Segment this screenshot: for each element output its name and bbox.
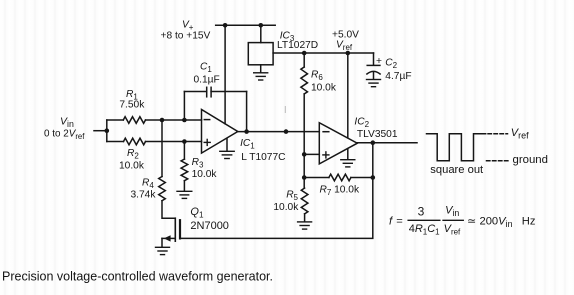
transistor Q1 gate bar [174, 218, 176, 241]
svg-text:Hz: Hz [522, 215, 536, 227]
wire IC1 supply drop [224, 25, 226, 124]
wire Vin vertical split [106, 120, 108, 142]
svg-text:Q1: Q1 [190, 206, 204, 220]
wire Vin input stub [94, 130, 107, 132]
svg-text:Precision voltage-controlled w: Precision voltage-controlled waveform ge… [2, 270, 273, 284]
svg-text:ground: ground [513, 154, 548, 166]
wire IC2 supply drop from Vref [347, 53, 349, 138]
wire R6 top lead [303, 53, 305, 67]
resistor R3 [181, 159, 188, 181]
svg-text:L T1077C: L T1077C [241, 152, 285, 163]
wire R6 bottom to plus node crossing IC1 output [303, 94, 305, 178]
svg-text:3.74k: 3.74k [131, 190, 157, 201]
dashed level line ground [487, 160, 510, 162]
wire R5 bottom lead [304, 214, 306, 222]
svg-text:C2: C2 [385, 58, 397, 71]
wire V+ rail [216, 24, 276, 26]
node IC2 plus input [302, 152, 307, 157]
svg-text:IC2: IC2 [354, 117, 369, 130]
wire Q1 drain rail [180, 143, 373, 239]
wire R2 to non-inverting input [146, 141, 202, 143]
node R6 top [302, 51, 307, 56]
wire R3 top lead [183, 142, 185, 160]
wire C1 feedback right riser [246, 92, 248, 132]
wire IC3 ground stub [260, 65, 262, 73]
svg-text:10.0k: 10.0k [273, 202, 299, 213]
node V+ to IC3 [259, 23, 264, 28]
wire faint artifact above node F [284, 107, 286, 113]
svg-text:Vref: Vref [444, 223, 461, 237]
svg-text:10.0k: 10.0k [192, 169, 218, 180]
ground R5 [298, 222, 312, 229]
capacitor C2 wire from Vref [373, 53, 375, 65]
svg-text:C1: C1 [200, 62, 212, 75]
svg-text:+: + [376, 56, 382, 67]
label IC2 minus input [323, 131, 329, 133]
wire IC1 ground stub [226, 139, 228, 151]
node D non-inverting junction [182, 139, 187, 144]
svg-text:4.7µF: 4.7µF [385, 71, 411, 82]
node C top-branch junction to C1 [182, 118, 187, 123]
ground C2 [367, 80, 381, 87]
svg-text:f=: f= [389, 215, 403, 227]
label IC2 plus input [323, 152, 329, 158]
wire IC1 output [238, 131, 319, 133]
comparator U2 IC2 triangle [319, 123, 357, 164]
label IC1 minus input [204, 119, 209, 121]
svg-text:R7 10.0k: R7 10.0k [320, 185, 360, 198]
node Vin junction [105, 128, 110, 133]
wire IC2 output [357, 142, 417, 144]
node B top-branch junction to R4 [160, 118, 165, 123]
svg-text:IC1: IC1 [240, 138, 255, 151]
svg-text:R2: R2 [127, 148, 139, 161]
resistor R2 [124, 138, 146, 145]
square wave output symbol [427, 134, 486, 161]
label IC1 plus input [204, 139, 210, 145]
ground IC1 [220, 151, 234, 158]
svg-text:4R1C1: 4R1C1 [409, 223, 440, 237]
wire R4 top lead from node B [161, 120, 163, 177]
transistor Q1 source wire with body arrow [162, 237, 175, 239]
wire bottom branch to R2 [107, 141, 124, 143]
wire C1 feedback top left [184, 91, 206, 93]
node F output wire junction [284, 129, 289, 134]
ground IC2 [341, 160, 355, 167]
node E C1 feedback tap [244, 129, 249, 134]
svg-text:R5: R5 [286, 190, 298, 203]
op-amp U1 IC1 triangle [202, 110, 238, 154]
svg-text:R4: R4 [142, 178, 154, 191]
wire IC3 input drop [260, 25, 262, 42]
svg-text:2N7000: 2N7000 [190, 220, 229, 232]
wire C1 feedback left riser [183, 92, 185, 121]
node V+ to IC1 supply [223, 23, 228, 28]
wire C1 feedback top right [211, 91, 247, 93]
wire R5 top lead [303, 178, 305, 189]
svg-text:+8 to +15V: +8 to +15V [161, 31, 211, 42]
svg-text:7.50k: 7.50k [119, 100, 145, 111]
svg-text:Vin: Vin [445, 205, 459, 219]
resistor R6 [301, 67, 308, 94]
wire IC3 output / Vref rail [273, 52, 373, 54]
resistor R7 [329, 174, 351, 181]
wire IC2 ground stub [347, 149, 349, 160]
ground R3 [177, 191, 192, 198]
wire R4 bottom to Q1 gate [162, 201, 175, 219]
wire Q1 source to ground [161, 238, 163, 246]
fraction bar 2 in formula [443, 219, 463, 221]
wire top branch to R1 [107, 119, 124, 121]
node Vref [346, 51, 351, 56]
svg-text:R6: R6 [311, 70, 323, 83]
svg-text:TLV3501: TLV3501 [357, 129, 398, 140]
wire IC2 plus input stub [304, 153, 319, 155]
svg-text:10.0k: 10.0k [119, 161, 145, 172]
svg-text:LT1027D: LT1027D [277, 40, 318, 51]
svg-text:Vref: Vref [511, 127, 529, 141]
resistor R4 [159, 177, 166, 201]
svg-text:R3: R3 [192, 157, 204, 170]
node IC2 output junction [371, 140, 376, 145]
resistor R1 [123, 117, 145, 124]
node R7 right junction [371, 175, 376, 180]
wire C2 bottom lead [373, 73, 375, 80]
svg-text:3: 3 [418, 204, 425, 218]
dashed level line Vref [488, 133, 508, 135]
transistor Q1 channel bar [179, 220, 181, 238]
wire R7 right lead [351, 177, 373, 179]
wire R3 bottom lead [183, 181, 185, 191]
fraction bar 1 in formula [408, 219, 440, 221]
svg-text:0 to 2Vref: 0 to 2Vref [44, 129, 85, 142]
capacitor C2 [367, 65, 380, 74]
wire R7 left lead [304, 177, 329, 179]
wire R1 to inverting input [146, 119, 202, 121]
ground IC3 [254, 73, 268, 80]
voltage reference IC3 box [248, 43, 273, 65]
svg-text:Vin: Vin [60, 116, 74, 130]
svg-text:≃ 200Vin: ≃ 200Vin [467, 215, 513, 229]
resistor R5 [301, 188, 308, 214]
svg-text:Vref: Vref [336, 40, 353, 53]
svg-text:square out: square out [430, 164, 484, 176]
capacitor C1 [207, 87, 211, 97]
ground Q1 [156, 247, 170, 254]
node R5 R7 junction [302, 175, 307, 180]
svg-text:0.1µF: 0.1µF [194, 75, 220, 86]
svg-text:10.0k: 10.0k [311, 83, 337, 94]
